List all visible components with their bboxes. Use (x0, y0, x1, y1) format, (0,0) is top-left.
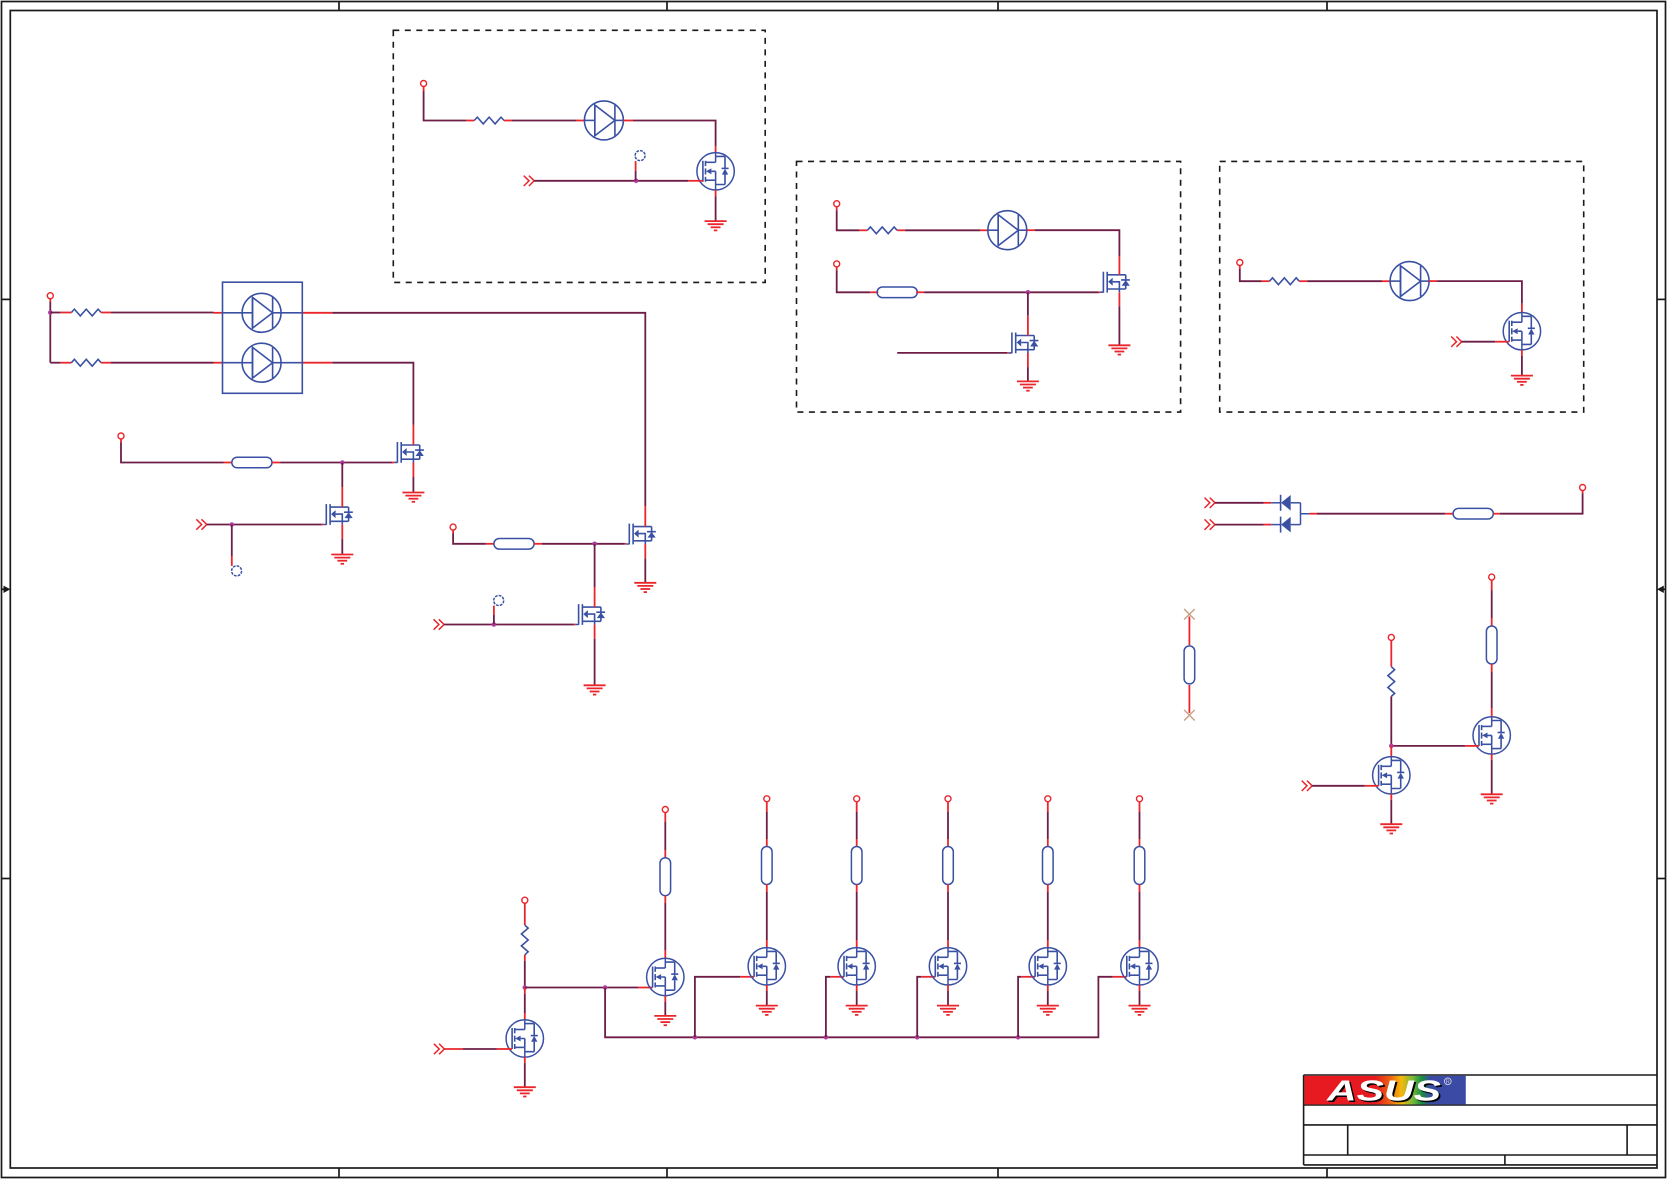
svg-text:R: R (1446, 1080, 1450, 1086)
svg-text:ASUS: ASUS (1326, 1076, 1442, 1108)
